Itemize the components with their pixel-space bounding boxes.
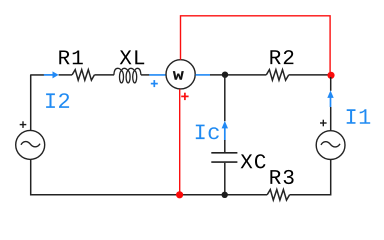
node red dot bottom	[176, 191, 183, 198]
node junction dot (black) top	[222, 72, 228, 78]
red wire wattmeter bottom to bottom rail	[179, 89, 181, 195]
resistor R2	[266, 70, 288, 81]
source V1 (right AC source)	[316, 131, 345, 160]
inductor XL	[114, 68, 141, 83]
plus blue (wattmeter left terminal)	[151, 80, 158, 87]
wire arrow to source V1 top	[330, 107, 332, 130]
plus black (source V1)	[320, 120, 327, 127]
resistor R1	[72, 70, 94, 81]
node junction dot (black) bottom	[222, 192, 228, 198]
blue stub left of wattmeter	[149, 74, 166, 76]
label I1	[347, 109, 371, 124]
label W	[173, 71, 184, 80]
plus black (source V2)	[20, 121, 27, 128]
label R2	[270, 50, 293, 64]
wire right vertical: red dot down to arrow tip	[330, 77, 332, 91]
wire capacitor to bottom rail	[224, 163, 226, 195]
wire source V1 bottom to bottom-right corner	[290, 160, 331, 195]
arrow I2 (blue, pointing right)	[44, 71, 59, 78]
wire left vertical (corner to source V2 top)	[30, 75, 32, 130]
wire top-left segment from corner to arrow	[30, 74, 44, 76]
wire middle branch: node to cap arrow	[224, 76, 226, 121]
label I2	[46, 93, 69, 108]
label XL	[120, 50, 145, 64]
capacitor XC	[211, 153, 237, 162]
wire R1 to XL	[94, 74, 114, 76]
red wire wattmeter top to top rail to right node	[181, 16, 331, 72]
label XC	[241, 154, 266, 168]
source V2 (left AC source)	[16, 130, 45, 159]
node red dot right	[327, 72, 334, 79]
wire blue stub to node and on to R2	[210, 74, 266, 76]
arrow Ic (blue, pointing up)	[222, 121, 228, 140]
blue stub right of wattmeter	[196, 74, 211, 76]
label Ic	[196, 125, 219, 140]
wire XL to blue stub	[141, 74, 150, 76]
op wattmeter U1 circle	[166, 60, 195, 89]
wire R2 to right node	[289, 74, 331, 76]
arrow I1 (blue, pointing up)	[327, 90, 333, 107]
label R1	[59, 51, 83, 65]
resistor R3	[267, 190, 289, 201]
label R3	[270, 170, 293, 184]
plus red (wattmeter bottom terminal)	[181, 93, 188, 100]
wire source V2 bottom to bottom-left corner and bottom rail to R3	[31, 160, 268, 195]
wire arrow to R1	[59, 74, 73, 76]
wire arrow to capacitor	[224, 140, 226, 152]
